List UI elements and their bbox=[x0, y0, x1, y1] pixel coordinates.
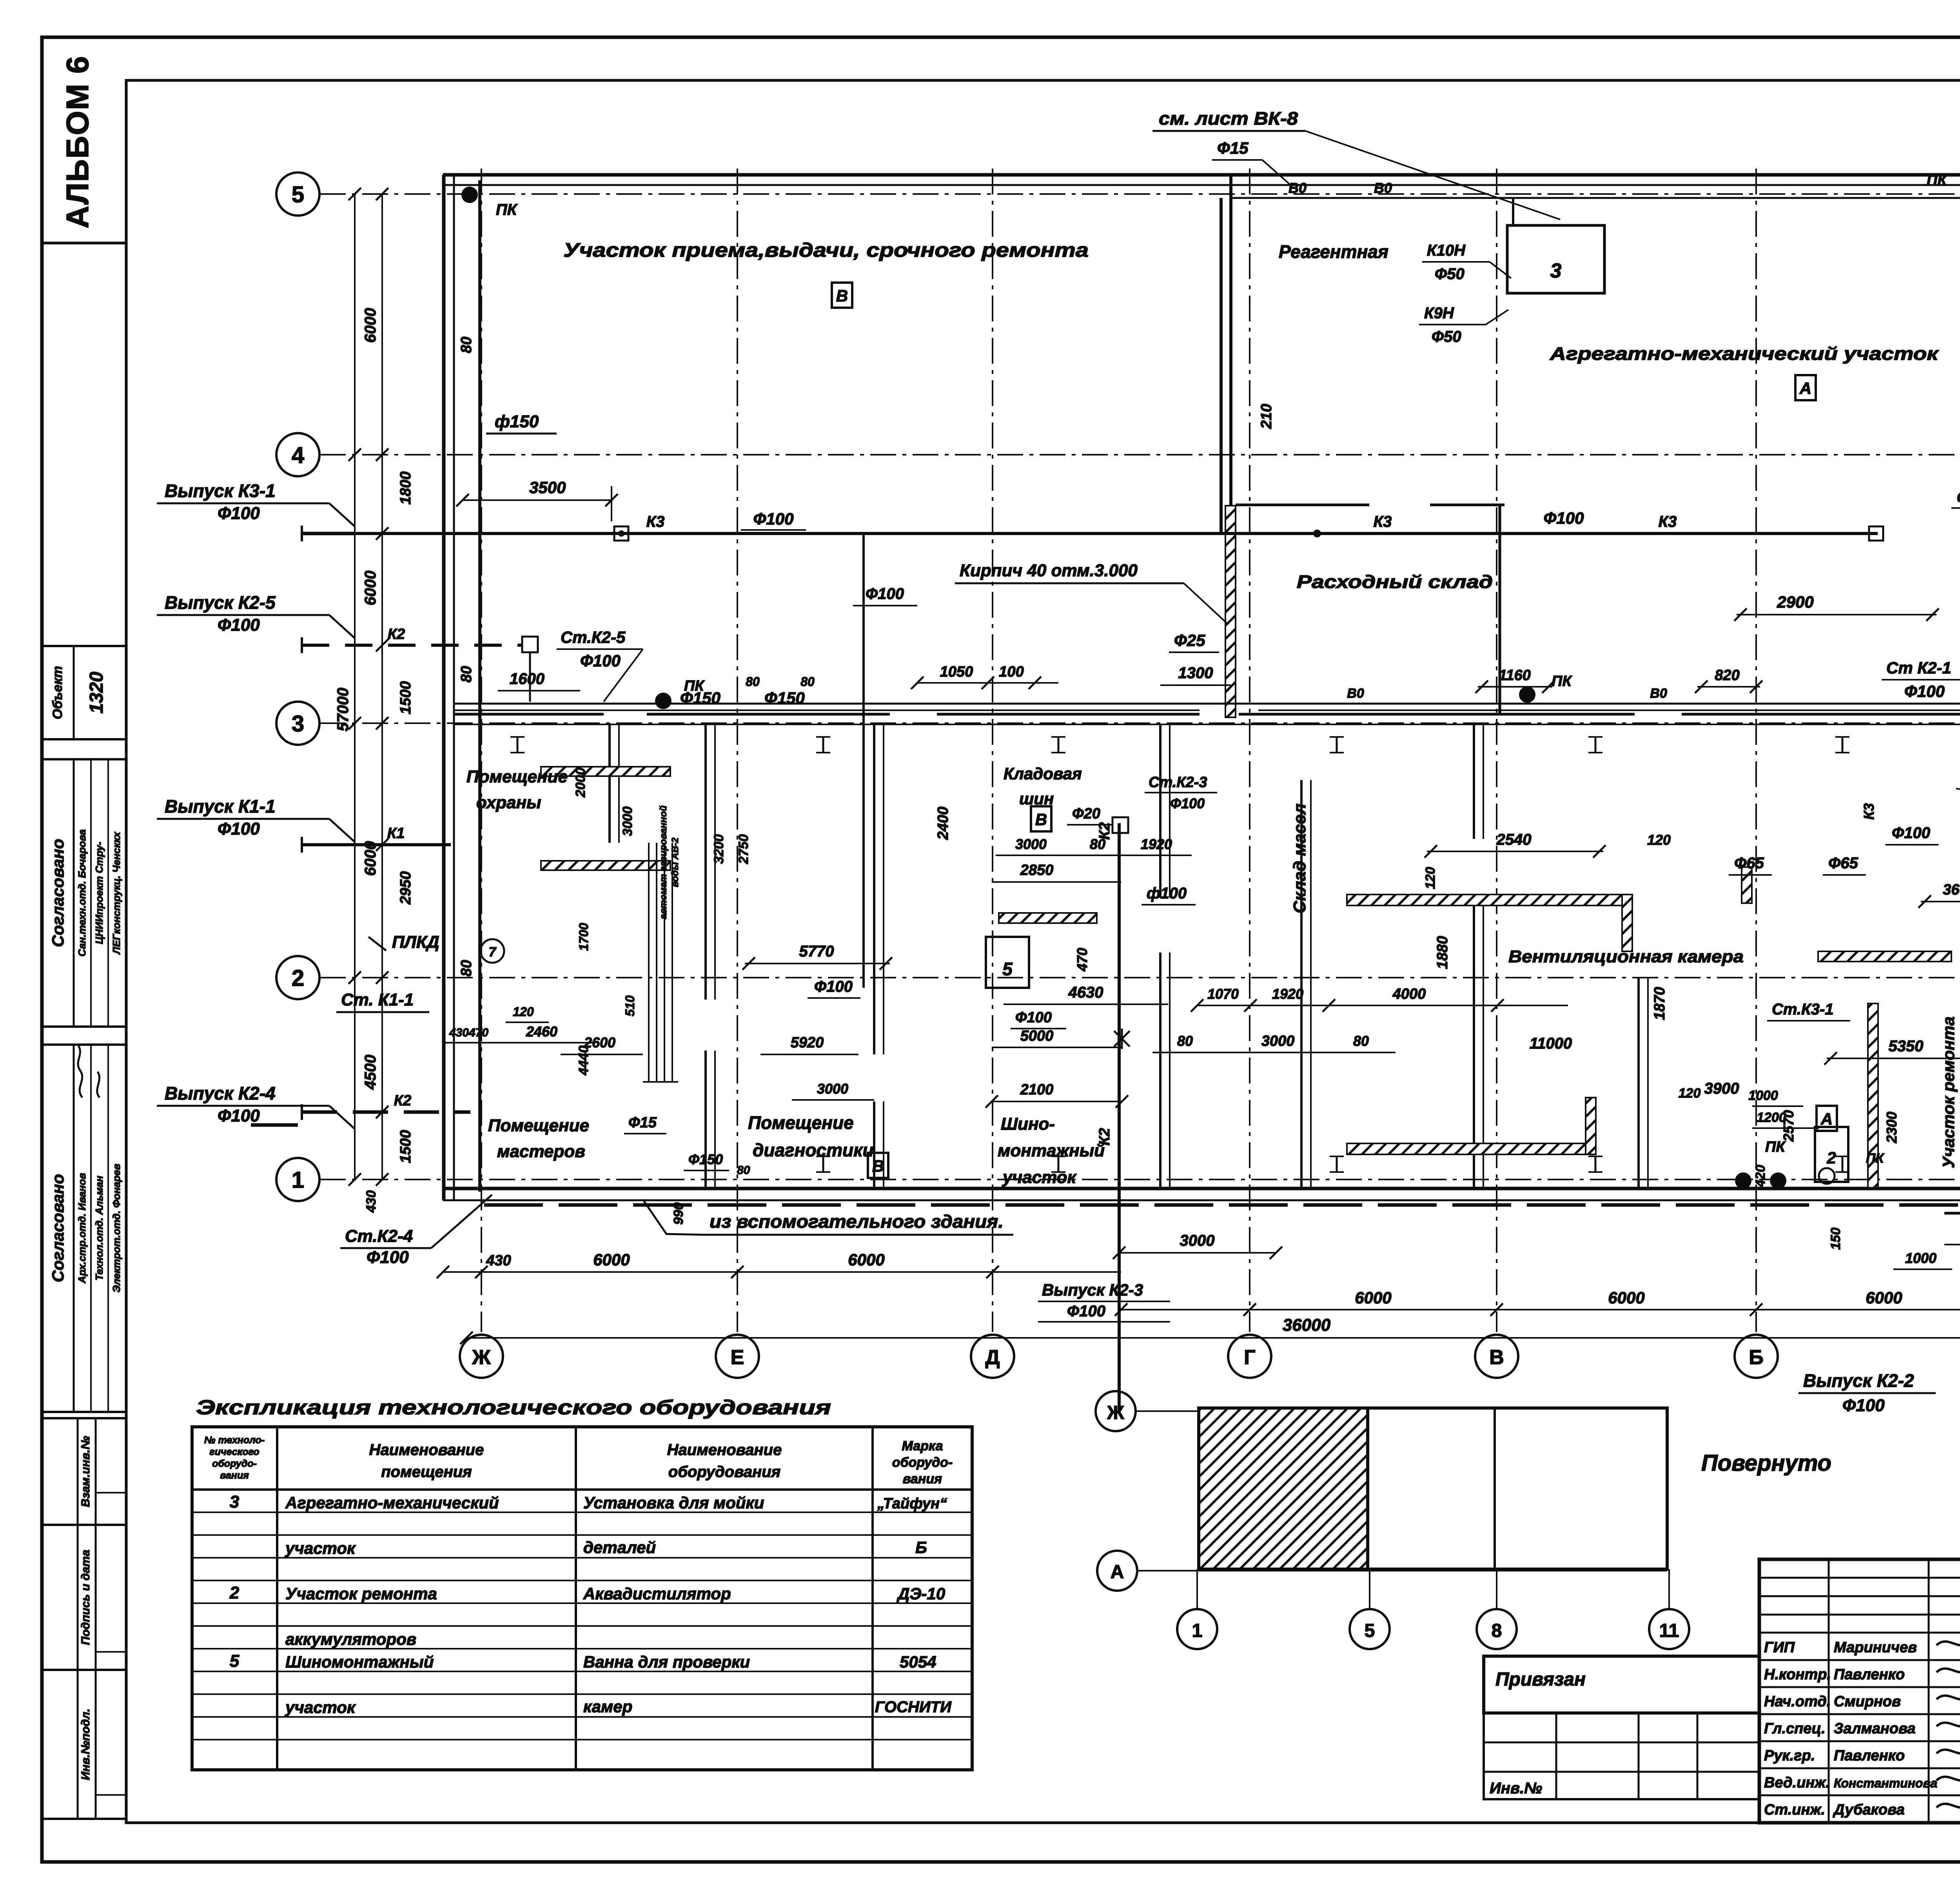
svg-text:ЛЕГконструкц. Ченсккх: ЛЕГконструкц. Ченсккх bbox=[111, 831, 122, 955]
svg-text:ЦНИИпроект Стру-: ЦНИИпроект Стру- bbox=[93, 842, 105, 944]
svg-text:Аквадистилятор: Аквадистилятор bbox=[583, 1584, 731, 1603]
svg-text:Смирнов: Смирнов bbox=[1834, 1693, 1901, 1710]
svg-text:Залманова: Залманова bbox=[1834, 1720, 1916, 1737]
svg-text:2600: 2600 bbox=[584, 1034, 615, 1051]
svg-text:4000: 4000 bbox=[1392, 986, 1426, 1002]
svg-text:шин: шин bbox=[1019, 789, 1054, 808]
svg-text:Реагентная: Реагентная bbox=[1279, 241, 1388, 262]
svg-text:аккумуляторов: аккумуляторов bbox=[285, 1630, 416, 1648]
svg-text:Марка: Марка bbox=[902, 1439, 943, 1453]
svg-text:ПК: ПК bbox=[496, 201, 518, 218]
svg-text:1300: 1300 bbox=[1178, 664, 1213, 682]
svg-text:Ж: Ж bbox=[472, 1346, 491, 1369]
svg-text:470: 470 bbox=[1074, 948, 1090, 972]
svg-text:ПК: ПК bbox=[1927, 172, 1947, 189]
svg-text:1870: 1870 bbox=[1651, 987, 1668, 1020]
svg-text:Склад масел: Склад масел bbox=[1290, 804, 1309, 913]
svg-text:Ф100: Ф100 bbox=[1170, 795, 1205, 811]
svg-text:1200: 1200 bbox=[1757, 1110, 1786, 1125]
svg-text:Ст.К3-1: Ст.К3-1 bbox=[1772, 1001, 1833, 1018]
svg-text:1500: 1500 bbox=[397, 1130, 414, 1163]
svg-text:Повернуто: Повернуто bbox=[1701, 1450, 1831, 1476]
svg-text:монтажный: монтажный bbox=[998, 1141, 1105, 1160]
svg-text:Выпуск К2-5: Выпуск К2-5 bbox=[165, 592, 276, 613]
svg-text:ПК: ПК bbox=[1866, 1151, 1884, 1166]
svg-text:2950: 2950 bbox=[397, 871, 414, 905]
svg-text:В: В bbox=[1035, 810, 1047, 829]
svg-text:Агрегатно-механический участок: Агрегатно-механический участок bbox=[1550, 343, 1940, 364]
svg-text:80: 80 bbox=[1353, 1033, 1369, 1049]
svg-text:ф100: ф100 bbox=[1147, 885, 1187, 902]
svg-text:990: 990 bbox=[671, 1203, 686, 1225]
svg-text:Участок ремонта: Участок ремонта bbox=[285, 1584, 437, 1603]
svg-text:Ф50: Ф50 bbox=[1435, 265, 1465, 283]
svg-text:Выпуск К1-1: Выпуск К1-1 bbox=[165, 796, 276, 817]
svg-text:Выпуск К2-4: Выпуск К2-4 bbox=[165, 1083, 276, 1103]
svg-text:„Тайфун“: „Тайфун“ bbox=[877, 1495, 947, 1512]
svg-text:Участок приема,выдачи, срочног: Участок приема,выдачи, срочного ремонта bbox=[563, 239, 1089, 261]
svg-text:3500: 3500 bbox=[529, 478, 566, 497]
svg-text:Кирпич 40 отм.3.000: Кирпич 40 отм.3.000 bbox=[960, 561, 1138, 580]
svg-text:Ф65: Ф65 bbox=[1734, 855, 1764, 872]
svg-text:Ф150: Ф150 bbox=[680, 689, 720, 707]
svg-text:5: 5 bbox=[230, 1651, 240, 1671]
svg-text:3: 3 bbox=[292, 711, 304, 737]
svg-text:Ф100: Ф100 bbox=[218, 819, 260, 838]
svg-text:Агрегатно-механический: Агрегатно-механический bbox=[285, 1493, 499, 1512]
svg-text:5000: 5000 bbox=[1020, 1028, 1054, 1044]
svg-text:К1: К1 bbox=[387, 825, 405, 842]
svg-text:Кладовая: Кладовая bbox=[1004, 764, 1082, 783]
svg-text:см. лист ВК-8: см. лист ВК-8 bbox=[1159, 108, 1298, 129]
svg-text:Вентиляционная камера: Вентиляционная камера bbox=[1508, 947, 1744, 966]
svg-text:510: 510 bbox=[623, 995, 637, 1016]
svg-text:Арх.стр.отд. Иванов: Арх.стр.отд. Иванов bbox=[76, 1173, 88, 1284]
svg-text:Объект: Объект bbox=[50, 666, 65, 719]
svg-text:автомат газированной: автомат газированной bbox=[658, 806, 669, 920]
svg-text:помещения: помещения bbox=[381, 1463, 472, 1481]
svg-text:ДЭ-10: ДЭ-10 bbox=[897, 1584, 945, 1603]
svg-text:Электрот.отд. Фонарев: Электрот.отд. Фонарев bbox=[111, 1163, 122, 1292]
svg-text:1800: 1800 bbox=[397, 472, 414, 505]
svg-text:820: 820 bbox=[1715, 667, 1739, 684]
svg-text:Ф50: Ф50 bbox=[1432, 328, 1461, 345]
svg-text:2000: 2000 bbox=[573, 768, 588, 798]
svg-text:ф150: ф150 bbox=[1957, 487, 1960, 505]
svg-text:Ст.инж.: Ст.инж. bbox=[1764, 1802, 1825, 1818]
svg-text:4: 4 bbox=[292, 443, 304, 468]
svg-text:Привязан: Привязан bbox=[1495, 1669, 1586, 1690]
svg-text:80: 80 bbox=[800, 675, 815, 689]
svg-text:Технол.отд. Альман: Технол.отд. Альман bbox=[93, 1176, 105, 1281]
svg-text:Взам.инв.№: Взам.инв.№ bbox=[79, 1436, 92, 1507]
svg-text:2750: 2750 bbox=[736, 834, 751, 864]
svg-text:Н.контр.: Н.контр. bbox=[1764, 1666, 1831, 1683]
svg-text:1050: 1050 bbox=[940, 664, 973, 680]
svg-text:Павленко: Павленко bbox=[1834, 1666, 1905, 1683]
svg-text:430: 430 bbox=[364, 1190, 379, 1213]
svg-text:Ф100: Ф100 bbox=[218, 1106, 260, 1125]
svg-text:2460: 2460 bbox=[526, 1023, 557, 1040]
svg-text:5: 5 bbox=[1365, 1620, 1375, 1641]
svg-text:АЛЬБОМ 6: АЛЬБОМ 6 bbox=[60, 55, 95, 228]
svg-text:120: 120 bbox=[1679, 1086, 1701, 1101]
svg-text:Наименование: Наименование bbox=[369, 1441, 484, 1459]
svg-text:Рук.гр.: Рук.гр. bbox=[1764, 1747, 1815, 1764]
svg-text:деталей: деталей bbox=[583, 1538, 656, 1557]
svg-text:Ст.К2-3: Ст.К2-3 bbox=[1149, 774, 1207, 791]
svg-text:Е: Е bbox=[731, 1346, 744, 1369]
svg-text:120: 120 bbox=[1423, 867, 1438, 889]
svg-text:6000: 6000 bbox=[848, 1250, 884, 1269]
svg-text:1880: 1880 bbox=[1434, 936, 1451, 969]
svg-text:вания: вания bbox=[220, 1470, 249, 1481]
svg-text:диагностики: диагностики bbox=[753, 1140, 874, 1160]
svg-text:6000: 6000 bbox=[1355, 1288, 1391, 1307]
svg-text:оборудо-: оборудо- bbox=[892, 1455, 953, 1470]
svg-text:Ф100: Ф100 bbox=[367, 1248, 409, 1267]
svg-text:Ф15: Ф15 bbox=[1217, 139, 1249, 157]
svg-text:Ф100: Ф100 bbox=[580, 651, 621, 670]
svg-text:В: В bbox=[872, 1157, 884, 1175]
svg-text:В: В bbox=[836, 287, 848, 305]
svg-text:1000: 1000 bbox=[1748, 1088, 1778, 1103]
svg-text:Участок ремонта: Участок ремонта bbox=[1939, 1016, 1958, 1168]
svg-text:80: 80 bbox=[458, 666, 475, 682]
svg-text:430470: 430470 bbox=[449, 1026, 488, 1039]
svg-text:А: А bbox=[1799, 379, 1811, 397]
svg-text:1500: 1500 bbox=[397, 681, 414, 715]
svg-text:Ст К2-1: Ст К2-1 bbox=[1886, 659, 1951, 677]
svg-text:Павленко: Павленко bbox=[1834, 1747, 1905, 1764]
svg-text:1920: 1920 bbox=[1141, 836, 1172, 852]
svg-text:1070: 1070 bbox=[1207, 986, 1239, 1002]
svg-text:3: 3 bbox=[1550, 259, 1562, 282]
svg-text:Г: Г bbox=[1244, 1346, 1255, 1369]
svg-text:3: 3 bbox=[230, 1492, 239, 1512]
svg-text:5920: 5920 bbox=[791, 1034, 824, 1051]
svg-text:1: 1 bbox=[292, 1167, 304, 1193]
svg-text:Ф100: Ф100 bbox=[218, 615, 260, 635]
svg-text:оборудования: оборудования bbox=[668, 1463, 780, 1481]
svg-text:210: 210 bbox=[1258, 404, 1275, 429]
svg-text:2300: 2300 bbox=[1884, 1112, 1900, 1143]
svg-text:6000: 6000 bbox=[362, 571, 379, 606]
svg-text:430: 430 bbox=[486, 1252, 511, 1269]
svg-text:5054: 5054 bbox=[900, 1653, 936, 1671]
svg-text:3000: 3000 bbox=[1261, 1033, 1295, 1049]
svg-text:Константинова: Константинова bbox=[1834, 1776, 1937, 1790]
svg-text:80: 80 bbox=[746, 675, 760, 689]
svg-text:гического: гического bbox=[209, 1446, 259, 1457]
svg-text:Ж: Ж bbox=[1107, 1403, 1124, 1423]
svg-text:11: 11 bbox=[1659, 1620, 1679, 1641]
svg-text:Б: Б bbox=[1749, 1346, 1763, 1369]
svg-text:Шино-: Шино- bbox=[1001, 1114, 1055, 1134]
svg-text:150: 150 bbox=[1828, 1228, 1843, 1250]
svg-text:420: 420 bbox=[1753, 1165, 1768, 1188]
svg-text:Дубакова: Дубакова bbox=[1833, 1802, 1905, 1818]
svg-text:1700: 1700 bbox=[577, 923, 591, 951]
svg-text:охраны: охраны bbox=[476, 793, 541, 812]
svg-text:В: В bbox=[1489, 1346, 1504, 1369]
svg-text:оборудо-: оборудо- bbox=[212, 1458, 257, 1469]
svg-text:Гл.спец.: Гл.спец. bbox=[1764, 1720, 1826, 1737]
svg-text:6000: 6000 bbox=[362, 308, 379, 343]
svg-text:Инв.№: Инв.№ bbox=[1490, 1780, 1542, 1797]
svg-text:А: А bbox=[1111, 1562, 1124, 1582]
svg-text:1: 1 bbox=[1192, 1620, 1203, 1641]
svg-text:Ст. К1-1: Ст. К1-1 bbox=[341, 990, 414, 1009]
svg-text:Ф65: Ф65 bbox=[1828, 855, 1858, 872]
svg-text:Ст.К2-5: Ст.К2-5 bbox=[561, 628, 626, 646]
svg-text:Ф100: Ф100 bbox=[1842, 1396, 1885, 1415]
svg-text:мастеров: мастеров bbox=[497, 1142, 585, 1161]
svg-text:Вед.инж.: Вед.инж. bbox=[1764, 1775, 1830, 1791]
svg-text:Помещение: Помещение bbox=[488, 1116, 589, 1135]
svg-text:Мариничев: Мариничев bbox=[1834, 1639, 1917, 1656]
svg-text:80: 80 bbox=[1090, 836, 1105, 852]
svg-text:2400: 2400 bbox=[935, 807, 951, 840]
svg-text:К9Н: К9Н bbox=[1424, 305, 1454, 322]
svg-text:вания: вания bbox=[903, 1472, 942, 1486]
svg-text:7: 7 bbox=[489, 945, 497, 960]
svg-text:2: 2 bbox=[229, 1583, 240, 1602]
svg-text:К3: К3 bbox=[646, 513, 665, 530]
svg-text:Инв.№подл.: Инв.№подл. bbox=[79, 1709, 92, 1780]
svg-text:Выпуск К2-2: Выпуск К2-2 bbox=[1803, 1370, 1914, 1391]
svg-text:Ф100: Ф100 bbox=[1067, 1303, 1105, 1320]
svg-text:2540: 2540 bbox=[1496, 831, 1532, 848]
svg-text:3000: 3000 bbox=[1180, 1232, 1215, 1249]
svg-text:360: 360 bbox=[1943, 882, 1960, 898]
svg-text:Экспликация технологического: Экспликация технологического оборудовани… bbox=[196, 1396, 831, 1419]
svg-text:2100: 2100 bbox=[1020, 1081, 1054, 1098]
svg-text:Ф100: Ф100 bbox=[753, 510, 794, 528]
svg-text:Помещение: Помещение bbox=[466, 767, 568, 786]
svg-text:1160: 1160 bbox=[1499, 667, 1531, 684]
svg-text:6000: 6000 bbox=[1608, 1288, 1644, 1307]
svg-text:В0: В0 bbox=[1650, 686, 1667, 701]
svg-text:57000: 57000 bbox=[334, 688, 352, 731]
svg-text:1920: 1920 bbox=[1272, 986, 1303, 1002]
svg-text:2850: 2850 bbox=[1020, 862, 1054, 878]
svg-text:6000: 6000 bbox=[593, 1250, 630, 1269]
svg-text:Нач.отд.: Нач.отд. bbox=[1764, 1693, 1831, 1710]
svg-text:80: 80 bbox=[1177, 1033, 1193, 1049]
svg-text:80: 80 bbox=[458, 960, 475, 976]
svg-text:Выпуск К2-3: Выпуск К2-3 bbox=[1042, 1281, 1143, 1299]
svg-text:А: А bbox=[1820, 1110, 1833, 1128]
svg-text:№ техноло-: № техноло- bbox=[204, 1435, 265, 1446]
svg-text:5: 5 bbox=[292, 182, 304, 207]
svg-text:Подпись и дата: Подпись и дата bbox=[79, 1550, 92, 1645]
svg-text:Ст.К2-4: Ст.К2-4 bbox=[345, 1227, 413, 1246]
svg-text:Выпуск К3-1: Выпуск К3-1 bbox=[165, 481, 276, 501]
svg-text:ГОСНИТИ: ГОСНИТИ bbox=[875, 1698, 952, 1716]
svg-text:К3: К3 bbox=[1374, 513, 1392, 530]
svg-text:Ф100: Ф100 bbox=[1015, 1009, 1052, 1026]
svg-text:ГИП: ГИП bbox=[1764, 1639, 1795, 1656]
svg-text:К3: К3 bbox=[1659, 513, 1677, 530]
svg-text:В0: В0 bbox=[1289, 180, 1307, 196]
svg-text:ПЛКД: ПЛКД bbox=[392, 933, 439, 952]
svg-text:2: 2 bbox=[1826, 1149, 1836, 1167]
svg-text:из вспомогательного здания.: из вспомогательного здания. bbox=[710, 1211, 1004, 1232]
svg-text:2900: 2900 bbox=[1777, 593, 1813, 611]
svg-text:80: 80 bbox=[737, 1164, 750, 1177]
svg-text:80: 80 bbox=[458, 337, 475, 353]
svg-text:Ф25: Ф25 bbox=[1174, 631, 1205, 650]
svg-text:К2: К2 bbox=[388, 626, 405, 642]
svg-text:К10Н: К10Н bbox=[1427, 242, 1466, 259]
svg-text:Установка для мойки: Установка для мойки bbox=[583, 1493, 764, 1512]
svg-text:участок: участок bbox=[285, 1539, 356, 1557]
svg-text:участок: участок bbox=[1002, 1168, 1077, 1187]
svg-text:Ф100: Ф100 bbox=[1892, 824, 1930, 842]
svg-text:100: 100 bbox=[999, 664, 1024, 680]
svg-text:1000: 1000 bbox=[1905, 1250, 1936, 1266]
svg-text:Д: Д bbox=[985, 1346, 1000, 1369]
svg-text:36000: 36000 bbox=[1283, 1316, 1331, 1335]
svg-text:3000: 3000 bbox=[817, 1081, 848, 1097]
svg-text:К2: К2 bbox=[394, 1092, 412, 1109]
svg-text:Шиномонтажный: Шиномонтажный bbox=[285, 1653, 434, 1671]
svg-text:Ф20: Ф20 bbox=[1072, 806, 1100, 822]
svg-text:3000: 3000 bbox=[1015, 836, 1047, 852]
svg-text:1320: 1320 bbox=[86, 671, 107, 713]
svg-text:Ф100: Ф100 bbox=[1904, 682, 1945, 700]
svg-text:Сан.техн.отд. Бочарова: Сан.техн.отд. Бочарова bbox=[76, 829, 88, 956]
svg-text:Ф100: Ф100 bbox=[814, 978, 853, 995]
svg-text:Ванна для проверки: Ванна для проверки bbox=[583, 1653, 750, 1671]
svg-text:Ф150: Ф150 bbox=[688, 1151, 723, 1167]
svg-text:6000: 6000 bbox=[1866, 1288, 1902, 1307]
svg-text:Согласовано: Согласовано bbox=[49, 839, 67, 947]
svg-text:К3: К3 bbox=[1861, 803, 1877, 820]
svg-text:участок: участок bbox=[285, 1698, 356, 1717]
svg-text:1600: 1600 bbox=[510, 670, 544, 688]
svg-text:Ф100: Ф100 bbox=[1544, 509, 1584, 527]
svg-text:5770: 5770 bbox=[799, 943, 834, 960]
svg-text:ф150: ф150 bbox=[495, 412, 539, 431]
svg-text:5350: 5350 bbox=[1889, 1038, 1924, 1055]
svg-text:3900: 3900 bbox=[1704, 1080, 1739, 1097]
svg-text:Ф100: Ф100 bbox=[218, 504, 260, 523]
svg-text:4500: 4500 bbox=[362, 1055, 379, 1090]
svg-text:Ф150: Ф150 bbox=[764, 689, 805, 707]
svg-text:120: 120 bbox=[513, 1005, 534, 1019]
svg-text:Согласовано: Согласовано bbox=[49, 1174, 67, 1282]
svg-text:Ф15: Ф15 bbox=[628, 1114, 657, 1131]
svg-text:камер: камер bbox=[583, 1697, 632, 1716]
svg-text:2: 2 bbox=[292, 965, 304, 991]
svg-text:4630: 4630 bbox=[1068, 984, 1103, 1001]
svg-text:3000: 3000 bbox=[620, 806, 635, 836]
svg-text:3200: 3200 bbox=[711, 834, 726, 864]
svg-text:11000: 11000 bbox=[1530, 1035, 1572, 1052]
svg-text:Наименование: Наименование bbox=[667, 1441, 782, 1459]
svg-text:Расходный склад: Расходный склад bbox=[1297, 572, 1493, 592]
svg-text:120: 120 bbox=[1647, 832, 1671, 848]
svg-text:8: 8 bbox=[1492, 1620, 1502, 1641]
svg-text:В0: В0 bbox=[1347, 686, 1364, 701]
svg-text:В0: В0 bbox=[1374, 180, 1392, 196]
svg-text:Помещение: Помещение bbox=[748, 1112, 854, 1133]
svg-text:Б: Б bbox=[915, 1538, 927, 1557]
svg-text:Ф100: Ф100 bbox=[866, 585, 904, 602]
svg-text:5: 5 bbox=[1002, 959, 1013, 979]
